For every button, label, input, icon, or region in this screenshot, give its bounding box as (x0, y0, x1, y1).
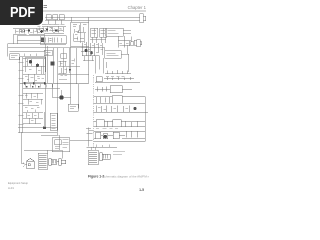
ganged capacitor C2 marks (11, 56, 18, 58)
phono jack J2 (122, 40, 142, 47)
IF can L1 (91, 28, 98, 37)
transformer T1 frame (40, 36, 66, 45)
IF can L2 core (101, 28, 106, 37)
gap marks (36, 27, 44, 33)
wire y74 (58, 73, 89, 75)
wire y47 extension (60, 47, 81, 49)
wire note box right (70, 140, 87, 142)
fuse F1 (46, 15, 51, 20)
bus junction dots (24, 83, 46, 85)
RF amp cluster (23, 57, 45, 82)
transistor Q5 (51, 62, 55, 66)
wire drops from fuses (49, 20, 62, 25)
caption figure text (88, 175, 172, 179)
main bus AF (20, 83, 89, 85)
bias marks above bus (25, 76, 44, 80)
wire loop 4 partial (20, 54, 45, 57)
wire detector right (121, 54, 129, 72)
oscillator Q1 (84, 49, 87, 52)
svg-text:1-5: 1-5 (139, 188, 144, 192)
bus dots row (26, 86, 39, 87)
right amp row 1 (95, 77, 140, 83)
mid verticals lower (53, 46, 89, 109)
wire long loop 2 (8, 47, 61, 49)
rectifier D2 (55, 29, 57, 31)
oscillator Q2 (90, 52, 93, 55)
wire ticks above LS2 (91, 145, 109, 151)
left rail B (22, 57, 24, 133)
wire Q6 base (53, 97, 71, 99)
selector text lines (108, 31, 119, 34)
mid filler marks (25, 107, 40, 112)
right amp row 4 (94, 106, 149, 113)
tuner inner marks (73, 23, 87, 43)
label row marks (96, 127, 118, 130)
tone stack cluster (23, 113, 43, 124)
coil L3 (44, 50, 52, 56)
wire top bus 2 (45, 20, 133, 22)
wire long loop 1 (8, 43, 67, 45)
driver transistor Q6 (59, 95, 63, 99)
fuse F2 (53, 15, 58, 20)
crystal mic symbol (23, 159, 34, 169)
wire box below input row (17, 36, 44, 44)
phono speaker LS2 (88, 150, 98, 165)
solid section line (106, 62, 108, 68)
pot marks (70, 106, 76, 109)
wire long loop 3 (10, 51, 46, 53)
plug P2 (100, 153, 111, 161)
wires selector right (123, 30, 131, 34)
detector box U3 (105, 51, 122, 59)
svg-text:A-01: A-01 (8, 186, 14, 190)
rectifier D1 (46, 28, 48, 30)
mid column rails (48, 46, 77, 110)
detector inner (107, 53, 119, 56)
transistor Q3 (29, 60, 32, 63)
tuner pins top (71, 17, 89, 22)
schematic drawing (0, 0, 149, 198)
dashed alignment line (93, 75, 95, 148)
wire jack J2 feed (128, 37, 132, 55)
varactor D3 (40, 30, 43, 33)
right amp row 6 (94, 131, 146, 142)
footer left text (8, 181, 28, 190)
svg-text:Chapter 1: Chapter 1 (128, 5, 147, 10)
part label text (113, 152, 125, 155)
trimmer circles (20, 30, 22, 32)
power entry cluster (42, 25, 66, 34)
AM/FM selector box U2 (106, 28, 124, 36)
svg-text:Equipment Setup: Equipment Setup (8, 181, 28, 185)
wire input row drop (14, 34, 45, 44)
tank circuit cluster (118, 36, 131, 48)
wire lower h2 (18, 131, 57, 133)
header rule (8, 10, 146, 12)
note text lines (55, 140, 69, 149)
switch S1 (59, 15, 64, 20)
svg-text:Schematic diagram of the AM/FM: Schematic diagram of the AM/FM receiver … (103, 175, 150, 179)
transistor Q4 (36, 64, 39, 67)
rectifier D4 (43, 127, 46, 130)
left input row components (13, 29, 44, 35)
tuner box U1 (71, 22, 89, 46)
dark mark (28, 29, 30, 31)
filter cap C4 (50, 113, 57, 130)
antenna jack J1 (133, 14, 146, 23)
phono circuit rows (86, 128, 117, 148)
bias row comps (25, 84, 52, 88)
filter cap marks (52, 116, 56, 129)
junction dot (69, 69, 71, 71)
transformer core mark (41, 38, 44, 43)
coil L3 marks (46, 52, 51, 54)
secondary bus (23, 87, 61, 89)
wire to speaker section (22, 132, 25, 164)
right amp row 2 (95, 86, 132, 93)
ganged capacitor C2 (10, 54, 20, 60)
wires IF cans down (90, 37, 106, 43)
volume pot box (68, 104, 78, 111)
wire loop left edge (7, 44, 9, 57)
IF can L1 core (92, 28, 97, 37)
right amp row 5 (94, 120, 146, 127)
note box inner rect (55, 140, 62, 145)
IF strip cluster (59, 54, 81, 80)
small marks mid (72, 59, 75, 64)
wire lower h1 (18, 127, 57, 129)
wire Q6 drop (61, 90, 63, 96)
phono transistor Q7 (104, 135, 107, 138)
wire detector left (99, 48, 105, 51)
left rail A (19, 57, 21, 133)
speaker LS1 (38, 153, 48, 169)
IF can L2 (100, 28, 107, 37)
PDF badge (0, 0, 43, 25)
wire speaker top (24, 150, 62, 159)
tuner inner comps (74, 30, 84, 42)
transformer T1 windings (43, 38, 61, 43)
output cap C5 (134, 107, 137, 110)
mixer cluster (81, 42, 103, 74)
plug P1 (49, 159, 66, 166)
rail ticks (19, 62, 24, 124)
wire top bus (45, 16, 133, 18)
note box (52, 138, 70, 152)
header left text remnant (44, 6, 48, 8)
right amp row 3 (94, 96, 146, 104)
discriminator row (105, 70, 131, 77)
capacitor C1 (50, 39, 52, 41)
wire down centre (41, 44, 60, 150)
right rail (144, 97, 146, 142)
left lower cluster (23, 93, 43, 105)
